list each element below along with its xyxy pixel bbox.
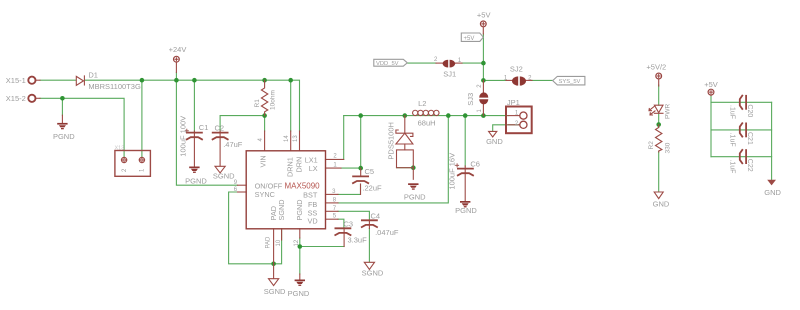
svg-text:MBRS1100T3G: MBRS1100T3G bbox=[88, 82, 141, 91]
svg-text:+24V: +24V bbox=[169, 45, 187, 54]
svg-text:SGND: SGND bbox=[264, 287, 286, 296]
svg-text:BST: BST bbox=[303, 190, 318, 199]
svg-text:C1: C1 bbox=[199, 123, 209, 132]
svg-text:C20: C20 bbox=[746, 104, 753, 117]
svg-text:DRN1: DRN1 bbox=[285, 157, 294, 177]
svg-text:SJ3: SJ3 bbox=[466, 93, 475, 106]
svg-text:JP1: JP1 bbox=[507, 98, 520, 107]
svg-text:+5V: +5V bbox=[477, 11, 491, 20]
svg-text:100uF 16V: 100uF 16V bbox=[447, 153, 456, 190]
svg-text:.47uF: .47uF bbox=[223, 140, 243, 149]
svg-text:LX: LX bbox=[309, 164, 318, 173]
svg-text:10ohm: 10ohm bbox=[270, 90, 277, 110]
svg-text:GND: GND bbox=[653, 199, 670, 208]
svg-text:GND: GND bbox=[486, 137, 503, 146]
svg-text:+5V_: +5V_ bbox=[464, 36, 479, 42]
svg-text:C21: C21 bbox=[746, 132, 753, 145]
svg-text:X15-1: X15-1 bbox=[6, 76, 26, 85]
svg-text:SGND: SGND bbox=[213, 172, 235, 181]
svg-text:R2: R2 bbox=[648, 141, 655, 150]
svg-text:DRN: DRN bbox=[294, 157, 303, 173]
svg-text:.1uF: .1uF bbox=[729, 133, 736, 147]
svg-text:PGND: PGND bbox=[455, 206, 477, 215]
svg-text:L2: L2 bbox=[418, 99, 426, 108]
svg-text:PGND: PGND bbox=[185, 177, 207, 186]
svg-text:.047uF: .047uF bbox=[375, 228, 399, 237]
svg-text:VD: VD bbox=[308, 216, 318, 225]
svg-text:3.3uF: 3.3uF bbox=[348, 236, 368, 245]
svg-text:C4: C4 bbox=[371, 212, 381, 221]
svg-text:10: 10 bbox=[276, 239, 282, 246]
svg-text:330: 330 bbox=[665, 142, 672, 153]
svg-text:VDD_5V: VDD_5V bbox=[376, 61, 399, 67]
svg-text:VIN: VIN bbox=[258, 155, 267, 167]
svg-text:C3: C3 bbox=[344, 220, 354, 229]
svg-text:SJ1: SJ1 bbox=[443, 70, 456, 79]
svg-text:PGND: PGND bbox=[404, 193, 426, 202]
svg-text:MAX5090: MAX5090 bbox=[285, 182, 321, 191]
svg-text:100uF 100V: 100uF 100V bbox=[178, 116, 187, 157]
svg-text:SJ2: SJ2 bbox=[510, 65, 523, 74]
svg-text:SYS_5V: SYS_5V bbox=[559, 79, 581, 85]
svg-text:13: 13 bbox=[293, 135, 299, 142]
svg-text:D1: D1 bbox=[88, 71, 98, 80]
svg-text:.1uF: .1uF bbox=[729, 159, 736, 173]
svg-text:12: 12 bbox=[294, 239, 300, 246]
svg-text:68uH: 68uH bbox=[418, 119, 436, 128]
svg-text:C6: C6 bbox=[470, 160, 480, 169]
svg-text:X15-2: X15-2 bbox=[6, 94, 26, 103]
svg-text:PGND: PGND bbox=[288, 289, 310, 298]
svg-text:X13: X13 bbox=[115, 146, 125, 152]
svg-text:14: 14 bbox=[284, 135, 290, 142]
svg-text:SGND: SGND bbox=[277, 199, 286, 220]
svg-text:R1: R1 bbox=[254, 99, 261, 108]
svg-text:.1uF: .1uF bbox=[729, 105, 736, 119]
svg-text:C2: C2 bbox=[215, 124, 225, 133]
svg-text:.22uF: .22uF bbox=[362, 184, 382, 193]
svg-text:+5V: +5V bbox=[704, 80, 718, 89]
svg-text:PGND: PGND bbox=[53, 132, 75, 141]
svg-text:SGND: SGND bbox=[362, 268, 384, 277]
svg-text:PGND: PGND bbox=[295, 199, 304, 220]
svg-text:PAD: PAD bbox=[265, 236, 271, 249]
svg-text:PWR: PWR bbox=[665, 104, 672, 119]
svg-text:+5V/2: +5V/2 bbox=[646, 63, 666, 72]
svg-text:PDS5100H: PDS5100H bbox=[386, 122, 395, 160]
svg-text:GND: GND bbox=[764, 188, 781, 197]
svg-text:SYNC: SYNC bbox=[255, 190, 275, 199]
svg-text:C5: C5 bbox=[365, 167, 375, 176]
svg-text:C22: C22 bbox=[746, 159, 753, 172]
